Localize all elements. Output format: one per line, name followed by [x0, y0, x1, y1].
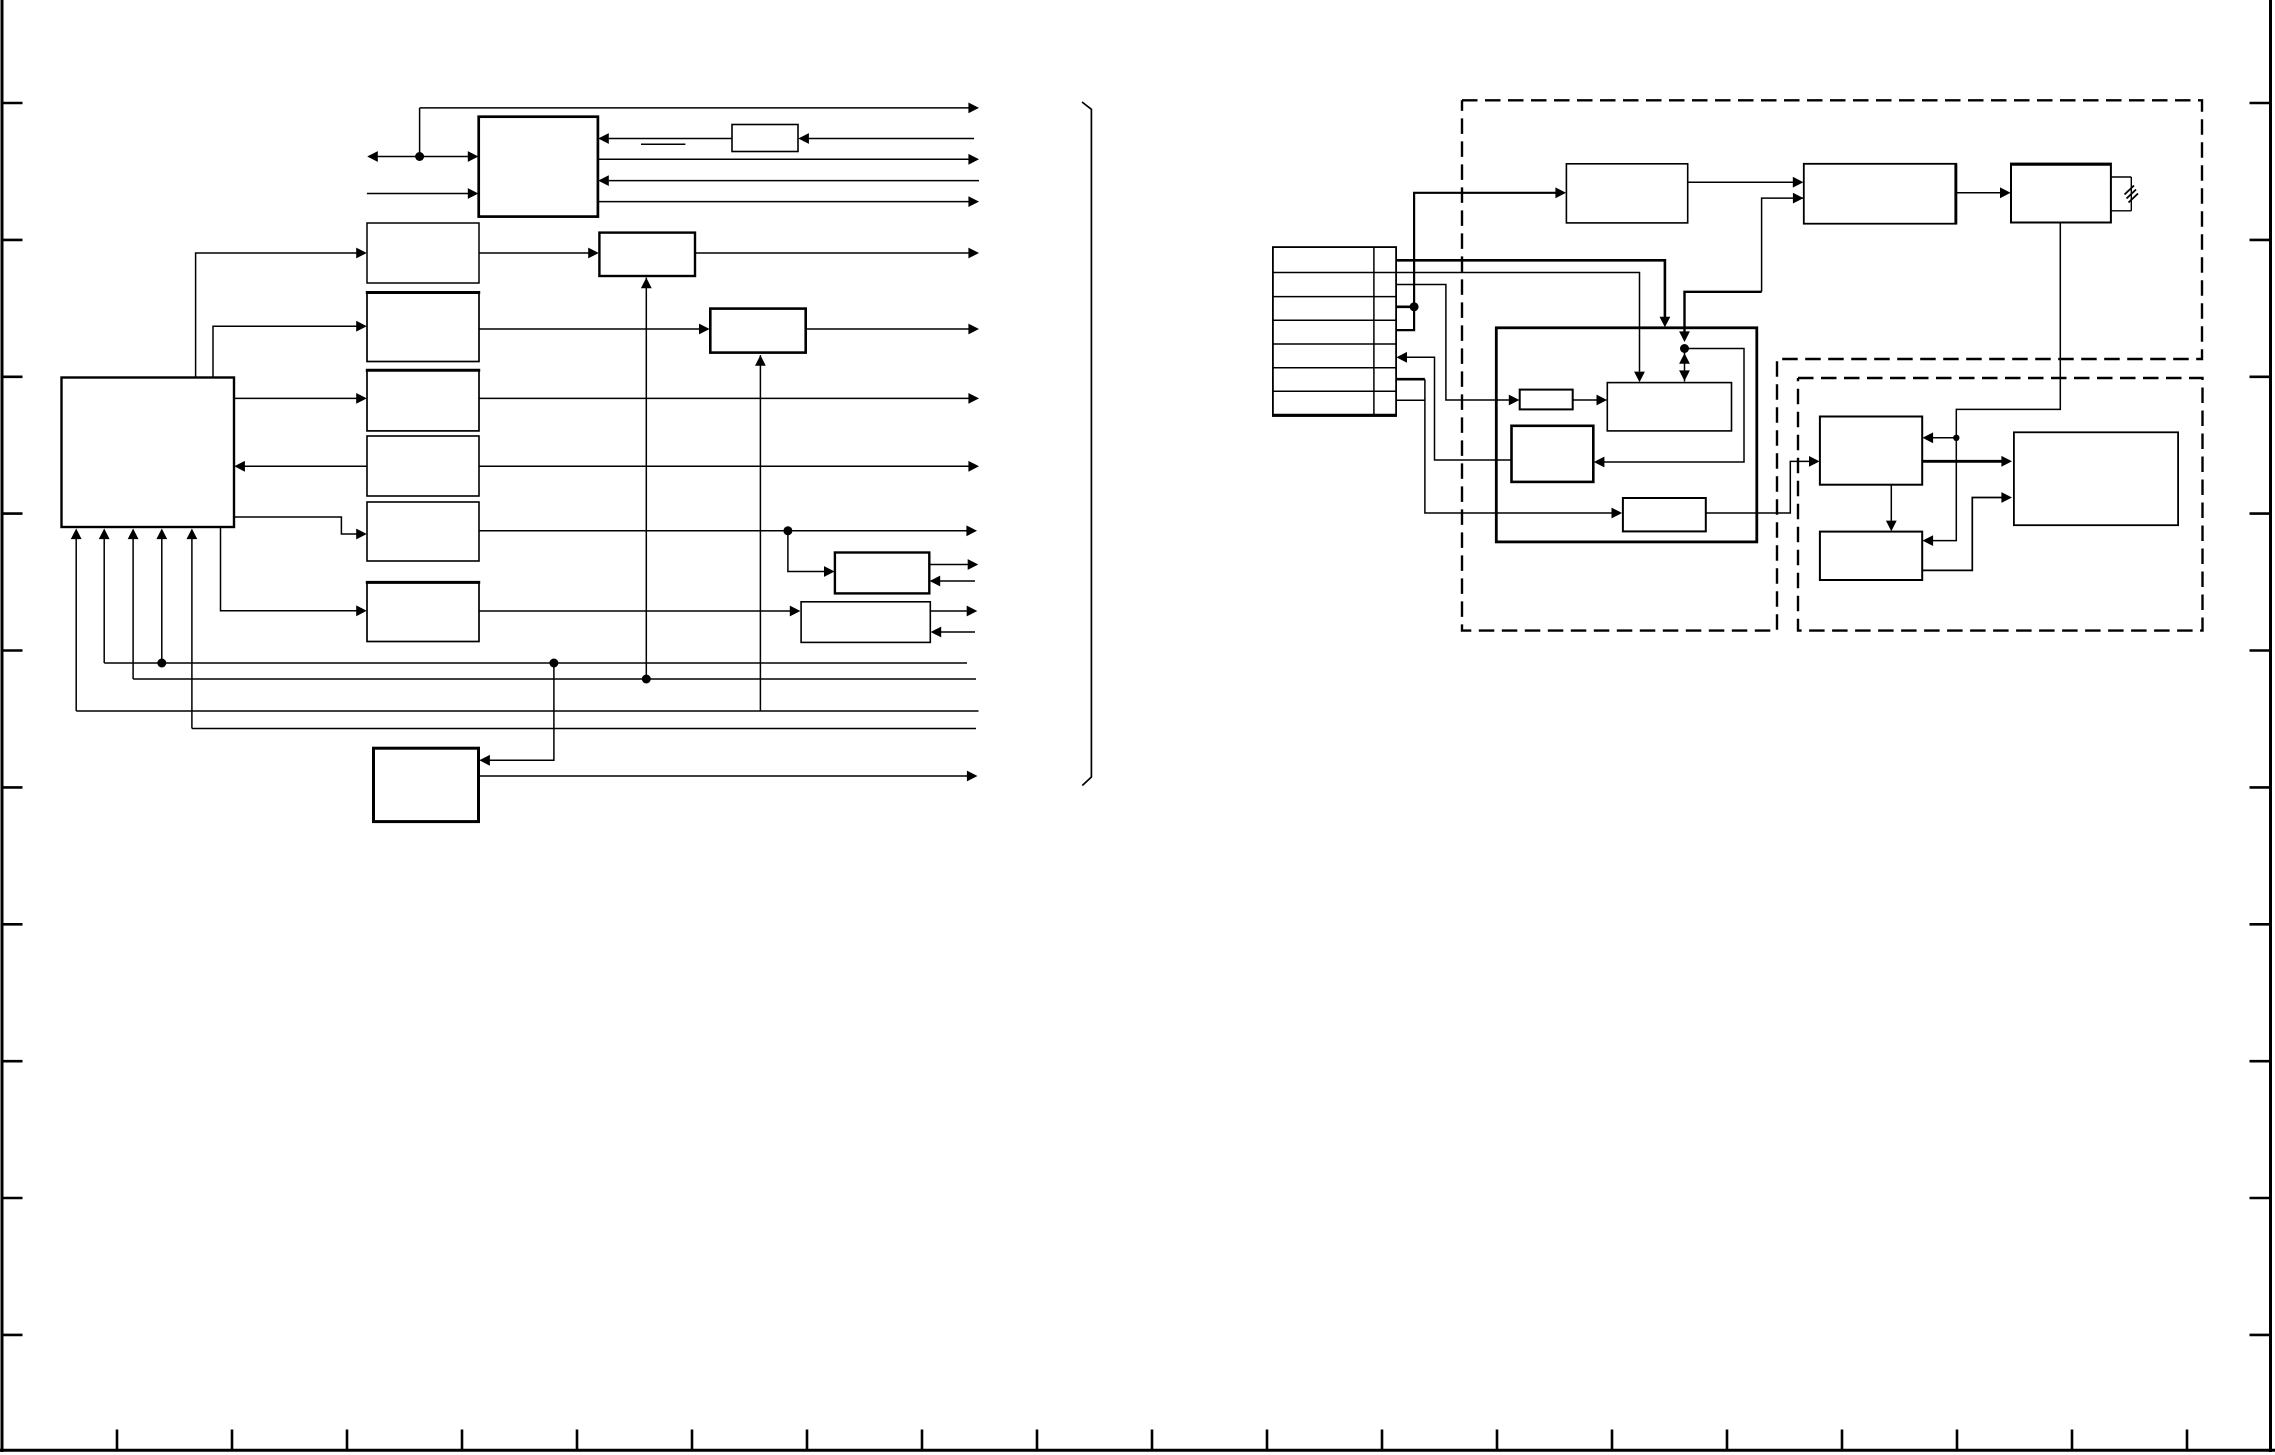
block B6 — [366, 582, 480, 641]
block SV1 — [1520, 390, 1573, 410]
wire rows 6-7 to block SV5 — [1425, 379, 1622, 518]
wire T2 right input — [931, 627, 975, 638]
wire B4 output — [479, 461, 979, 472]
wire bus-B to M1 pin 3 — [128, 529, 139, 680]
block B1 — [367, 223, 479, 283]
wire bidirectional port of M2 — [367, 151, 478, 162]
wire input to M2 — [367, 188, 479, 199]
wire D1 output — [695, 248, 979, 259]
dashed boundary region 2 — [1798, 378, 2203, 631]
block B5 — [367, 502, 479, 561]
junction bidirectional line — [415, 152, 424, 161]
wire SV1 to SV2 — [1573, 395, 1607, 406]
wire M1 bottom to block B6 — [221, 527, 367, 616]
wire T1 right input — [930, 576, 975, 587]
wire branch to S1 right — [1923, 432, 1957, 443]
wire S1 down to S2 — [1886, 485, 1897, 532]
wire M2 output 4 — [598, 196, 979, 207]
wire bus-A to M1 pin 2 — [99, 529, 110, 664]
wire S2 to S3 — [1922, 492, 2012, 570]
block B2 — [366, 293, 480, 362]
junction servo bidir — [1680, 344, 1689, 353]
wire CN1 row4 to block R1 — [1396, 187, 1566, 330]
block D2 — [710, 309, 805, 353]
wire M1 to block B5 — [234, 517, 367, 539]
wire SV4 return to CN1 row5 — [1396, 352, 1511, 460]
wire M2 top output — [420, 103, 979, 114]
wire B7 output — [479, 771, 978, 782]
block S2 — [1820, 532, 1922, 580]
wire S1 to S3 bold — [1922, 456, 2012, 467]
wire R2 to R3 — [1956, 187, 2010, 198]
wire SV5 output to block S1 — [1706, 456, 1820, 513]
wire B1 to block D1 — [479, 248, 599, 259]
frame bottom border — [0, 1449, 2275, 1452]
junction row3 stub — [1410, 302, 1419, 311]
wire M1 top to block B1 — [196, 248, 367, 378]
wire bus-D — [192, 728, 976, 730]
wire CN1 row3 stub — [1396, 305, 1414, 308]
block R2 — [1804, 164, 1957, 224]
block B4 — [367, 436, 479, 496]
junction bus-A / M1 pin4 — [157, 659, 166, 668]
wire into SB — [798, 133, 974, 144]
block T1 — [835, 553, 929, 594]
junction R3 feedback — [1953, 435, 1959, 441]
block SV servo unit — [1496, 328, 1757, 542]
wire M1 to block B3 — [234, 393, 367, 404]
wire M2 input 3 — [598, 175, 979, 186]
frame bottom tick marks — [117, 1430, 2187, 1451]
wire bus-C up to D2 — [755, 355, 766, 711]
block SV5 — [1623, 498, 1706, 531]
wire CN1 to SV2 top — [1396, 273, 1645, 383]
block R3 motor driver — [2011, 164, 2111, 223]
dashed boundary region 1 — [1462, 100, 2202, 630]
junction bus-A to B7 branch — [549, 659, 558, 668]
wire branch to block T1 — [788, 531, 835, 577]
junction B5 output branch — [783, 526, 792, 535]
wire R3 down to S2 — [1923, 223, 2061, 547]
block M1 main controller IC — [62, 378, 235, 528]
wire double arrow junction to SV2 — [1679, 351, 1690, 382]
wire B6 to block T2 — [479, 606, 800, 617]
wire M2 output 2 — [598, 154, 979, 165]
block SV4 — [1512, 426, 1594, 482]
block SV2 — [1607, 383, 1731, 431]
block S1 — [1820, 417, 1922, 485]
block B3 — [366, 370, 480, 431]
wire bus-A — [104, 662, 967, 664]
wire R1 to R2 — [1688, 177, 1804, 188]
frame left tick marks — [2, 103, 23, 1335]
wire M1 top to block B2 — [213, 321, 367, 378]
block M2 interface IC — [479, 117, 598, 217]
wire bus-C — [76, 710, 978, 712]
wire block B4 to M1 — [234, 461, 367, 472]
wire T2 output — [930, 606, 977, 617]
wire SV2 feedback to SV4 — [1594, 349, 1744, 468]
connector CN1 stack — [1273, 247, 1396, 416]
block D1 — [599, 233, 695, 276]
bus bracket — [1082, 102, 1091, 786]
wire bus-B up to D1 — [641, 278, 652, 679]
frame left border — [1, 0, 4, 1452]
wire bus-A branch to block B7 — [479, 663, 554, 766]
junction bus-B / D1 feed — [642, 675, 651, 684]
motor terminal — [2111, 177, 2138, 211]
block S3 — [2014, 432, 2178, 525]
signal name overbar — [641, 143, 685, 145]
wire bus-A branch to M1 pin 4 — [156, 529, 167, 664]
block SB buffer — [732, 125, 798, 152]
wire B3 output — [479, 393, 979, 404]
wire bus-B — [133, 678, 976, 680]
block R1 — [1566, 164, 1687, 223]
frame right tick marks — [2250, 103, 2271, 1335]
wire CN1 row6 stub — [1396, 378, 1425, 381]
wire B2 to block D2 — [479, 324, 710, 335]
wire B5 output — [479, 525, 977, 536]
block B7 — [374, 748, 479, 821]
wire CN1 row1 to SV top — [1396, 260, 1670, 327]
wire T1 output — [929, 559, 978, 570]
wire CN1 row2 to SV1 — [1396, 285, 1519, 406]
wire D2 output — [806, 324, 979, 335]
wire bus-C to M1 pin 1 — [71, 529, 82, 712]
wire bold bidir down — [1679, 292, 1762, 342]
wire stub top line to bidirectional — [419, 108, 421, 157]
block T2 — [801, 602, 930, 643]
frame right border — [2269, 0, 2272, 1452]
wire right input into M2 via SB — [598, 133, 732, 144]
wire bus-D to M1 pin 5 — [187, 529, 198, 729]
wire CN1 row7 stub — [1396, 399, 1425, 401]
wire servo bidir to block R2 — [1762, 193, 1804, 292]
